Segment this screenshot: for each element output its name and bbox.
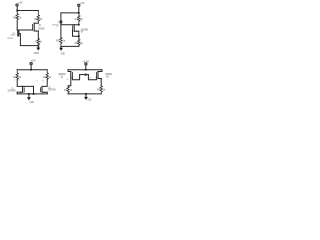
node gate deck BR (85, 74, 87, 76)
svg-text:R9: R9 (56, 39, 60, 43)
resistor R10 (source) (35, 38, 43, 45)
svg-text:2N7000: 2N7000 (48, 90, 56, 92)
transistor Q6 2N7000 (top-left) (33, 23, 39, 32)
ground TR (59, 46, 63, 51)
node BR rail junction (85, 69, 87, 71)
node BL rail junction (30, 69, 32, 71)
svg-text:R5: R5 (13, 16, 17, 20)
wire left vertical TR (60, 23, 62, 37)
wire source BL left down (16, 92, 18, 94)
resistor R4 (97, 86, 106, 94)
wire bottom rail BR (68, 93, 101, 95)
wire gate link BR right (88, 75, 96, 80)
resistor R8 (75, 39, 84, 47)
power +5V (top-left circuit) (16, 4, 19, 11)
connector pin TR (52, 21, 62, 29)
resistor R7 (75, 13, 84, 25)
svg-text:GND: GND (34, 52, 40, 55)
svg-text:R8: R8 (75, 41, 79, 45)
wire source BR right down (100, 79, 102, 86)
transistor Q4 IRF9540 (bottom-right right) (96, 70, 102, 80)
transistor Q1 2N7000 (bottom-left, mirrored) (17, 86, 24, 93)
wire source TR down (78, 31, 80, 39)
power +5V (top-right circuit) (78, 4, 81, 13)
svg-text:+5V: +5V (80, 1, 84, 5)
wire gate TL (17, 29, 32, 31)
node TR rail junction (78, 12, 80, 14)
svg-text:2N7000: 2N7000 (7, 38, 13, 40)
resistor R1 (13, 70, 22, 80)
wire mid gate bus BL (33, 86, 35, 94)
node mid-rail BL (33, 93, 35, 95)
wire drain tie TR (61, 24, 79, 26)
svg-text:R10: R10 (35, 40, 38, 44)
svg-text:R7: R7 (75, 17, 79, 21)
svg-text:GND: GND (88, 99, 92, 102)
svg-text:2N7000: 2N7000 (8, 91, 17, 93)
transistor Q4 AO3401 (top-right) (73, 25, 79, 37)
wire rail TR (61, 12, 79, 14)
svg-text:R2: R2 (43, 75, 47, 79)
wire gate BR left (72, 75, 79, 80)
ground TL (36, 46, 40, 51)
node ground BR (85, 93, 87, 95)
svg-text:GND: GND (61, 53, 65, 56)
wire R5 to gate (16, 21, 18, 30)
wire source BL right down (46, 92, 48, 94)
power +12V (bottom-right circuit) (85, 63, 88, 70)
transistor Q2 2N7000 (bottom-left right) (40, 86, 47, 93)
svg-text:GATE: GATE (10, 34, 16, 37)
wire bottom rail BL (17, 93, 47, 95)
power +5V (bottom-left circuit) (30, 62, 33, 69)
ground BL (27, 94, 31, 101)
connector pin J1 (7, 30, 19, 40)
resistor R2 (43, 70, 52, 80)
svg-text:+5V: +5V (31, 58, 36, 62)
wire rail TL (17, 10, 38, 12)
wire drain BR left down (68, 78, 71, 86)
svg-text:+5V: +5V (18, 1, 22, 5)
node source-loop TL (37, 45, 39, 47)
resistor R9 (gate pulldown) (56, 37, 66, 46)
wire drain BL left (17, 79, 33, 86)
resistor R6 (34, 11, 43, 24)
wire rail BR (68, 69, 102, 71)
wire drain BL right (42, 79, 47, 86)
svg-text:GND: GND (30, 101, 34, 104)
resistor R3 (64, 86, 73, 94)
wire source TL down (37, 31, 39, 38)
node top-left rail junction (16, 10, 18, 12)
wire rail BL (17, 69, 47, 71)
wire bottom TR (61, 45, 79, 47)
svg-text:R1: R1 (13, 75, 17, 79)
svg-text:+12V: +12V (82, 60, 89, 64)
wire gate loop down (19, 34, 38, 46)
svg-text:R4: R4 (97, 87, 101, 91)
wire gate deck BR (80, 74, 89, 76)
svg-text:R3: R3 (64, 88, 68, 92)
wire left drop TR (60, 13, 62, 21)
node source-gate TR (78, 35, 80, 37)
node ground BL (28, 93, 30, 95)
resistor R5 (13, 11, 22, 21)
svg-text:2N7000: 2N7000 (38, 27, 45, 30)
node drain tie TR (78, 24, 80, 26)
transistor Q3 IRF9540 (bottom-right left, mirrored) (68, 70, 72, 78)
ground BR (84, 94, 88, 100)
